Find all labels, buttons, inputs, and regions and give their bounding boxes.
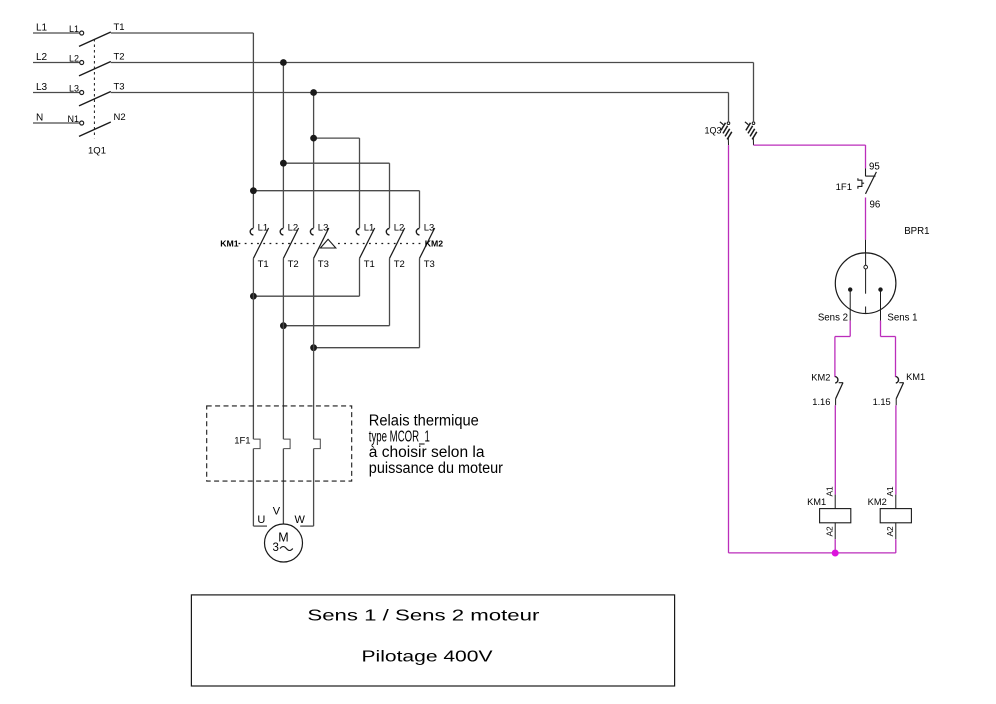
svg-text:1Q3: 1Q3: [704, 126, 721, 136]
svg-text:L3: L3: [69, 83, 79, 93]
svg-text:1.15: 1.15: [873, 397, 891, 407]
svg-text:V: V: [273, 505, 281, 517]
svg-text:1F1: 1F1: [836, 182, 852, 193]
svg-text:type MCOR_1: type MCOR_1: [369, 428, 430, 445]
svg-text:N: N: [36, 113, 43, 124]
svg-text:Sens 1 / Sens 2 moteur: Sens 1 / Sens 2 moteur: [307, 608, 540, 625]
svg-text:Pilotage 400V: Pilotage 400V: [362, 649, 493, 666]
svg-text:KM1: KM1: [220, 239, 239, 249]
svg-text:A2: A2: [885, 526, 895, 537]
svg-text:BPR1: BPR1: [904, 226, 929, 237]
svg-text:U: U: [257, 514, 265, 526]
svg-text:L1: L1: [258, 222, 269, 233]
svg-text:T2: T2: [394, 259, 405, 270]
svg-text:A1: A1: [825, 486, 835, 497]
svg-text:96: 96: [870, 200, 881, 211]
svg-text:L3: L3: [424, 222, 435, 233]
svg-text:Sens 1: Sens 1: [887, 312, 917, 323]
svg-text:à choisir selon la: à choisir selon la: [369, 444, 485, 461]
svg-text:L3: L3: [318, 222, 329, 233]
svg-text:T1: T1: [258, 259, 269, 270]
svg-text:T2: T2: [288, 259, 299, 270]
svg-text:Sens 2: Sens 2: [818, 312, 848, 323]
svg-text:Relais thermique: Relais thermique: [369, 413, 479, 430]
svg-text:N1: N1: [67, 114, 79, 124]
svg-text:T2: T2: [114, 52, 125, 63]
svg-text:KM2: KM2: [425, 239, 444, 249]
svg-text:N2: N2: [114, 112, 126, 123]
svg-text:A1: A1: [885, 486, 895, 497]
svg-text:W: W: [295, 514, 306, 526]
svg-text:3: 3: [273, 542, 279, 554]
svg-text:T3: T3: [318, 259, 329, 270]
svg-text:L1: L1: [364, 222, 375, 233]
svg-text:L2: L2: [36, 52, 48, 63]
svg-text:L1: L1: [69, 24, 79, 34]
svg-text:T3: T3: [424, 259, 435, 270]
svg-text:95: 95: [869, 161, 880, 172]
svg-text:KM2: KM2: [811, 372, 830, 382]
svg-text:T3: T3: [114, 82, 125, 93]
svg-text:L3: L3: [36, 82, 48, 93]
svg-text:1.16: 1.16: [812, 397, 830, 407]
svg-text:L1: L1: [36, 23, 48, 34]
svg-text:T1: T1: [114, 22, 125, 33]
svg-text:L2: L2: [394, 222, 405, 233]
svg-text:1Q1: 1Q1: [88, 146, 106, 157]
svg-text:1F1: 1F1: [234, 436, 250, 447]
svg-text:T1: T1: [364, 259, 375, 270]
svg-text:KM1: KM1: [807, 497, 826, 507]
svg-text:KM1: KM1: [906, 372, 925, 382]
svg-text:L2: L2: [288, 222, 299, 233]
svg-text:A2: A2: [825, 526, 835, 537]
svg-text:M: M: [278, 530, 288, 544]
svg-text:KM2: KM2: [868, 497, 887, 507]
svg-text:puissance du moteur: puissance du moteur: [369, 460, 503, 477]
svg-text:L2: L2: [69, 53, 79, 63]
